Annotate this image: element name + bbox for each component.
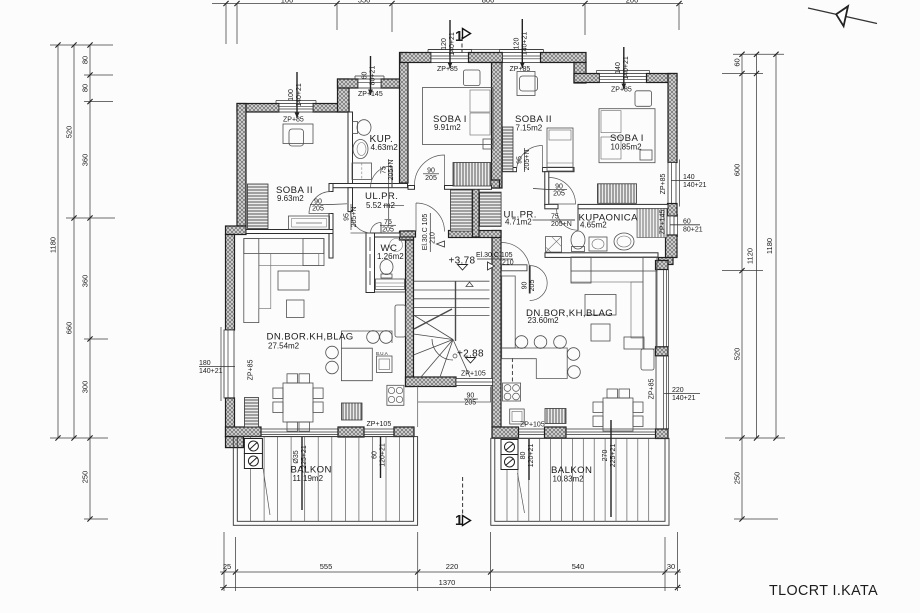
label 95/205+N soba2R door: [516, 148, 531, 172]
svg-text:27.54m2: 27.54m2: [268, 341, 300, 350]
svg-text:El.30.C 105: El.30.C 105: [422, 214, 429, 251]
coffee table right living: [585, 295, 616, 316]
door left WC: [371, 223, 382, 234]
svg-text:90: 90: [467, 393, 475, 400]
wall: right SOBA I bottom / KUPAONICA top: [545, 204, 558, 208]
stairs treads: [414, 281, 490, 377]
balcony left corner block: [226, 437, 244, 448]
svg-text:205: 205: [382, 226, 394, 233]
svg-text:360: 360: [81, 154, 90, 167]
svg-text:550: 550: [358, 0, 371, 5]
svg-text:9.63m2: 9.63m2: [277, 194, 304, 203]
door right SOBA II: [517, 146, 543, 172]
wall: bathroom right lower: [666, 235, 678, 258]
svg-text:140+21: 140+21: [623, 56, 630, 80]
wall: left exterior upper: [237, 104, 246, 227]
callout 140/140+21 soba1R window: [623, 47, 625, 89]
window ZP+145 KUP top: [355, 76, 384, 88]
svg-text:140: 140: [615, 62, 622, 74]
wall: KUP step (left of KUP): [338, 79, 350, 112]
wall: right SOBA I top right pier: [647, 74, 678, 83]
bidet KUPAONICA: [614, 233, 634, 250]
svg-text:205: 205: [312, 206, 324, 213]
wall: right SOBA I top left of window: [574, 74, 600, 83]
window ZP+85 living right upper: [656, 270, 669, 347]
door right KUPAONICA: [557, 209, 579, 231]
callout 60/80+21 right bath window: [670, 224, 700, 226]
stove left kitchen: [387, 385, 404, 405]
desk left SOBA II: [283, 124, 313, 144]
label 75/205+N bath door: [550, 213, 575, 228]
svg-text:4.71m2: 4.71m2: [505, 218, 532, 227]
svg-text:100: 100: [281, 0, 294, 5]
callout 140/140+21 right wall window: [671, 180, 700, 182]
wall: left apt SOBA II top, right of window: [313, 104, 349, 113]
svg-text:140+21: 140+21: [522, 32, 529, 56]
shower KUP: [352, 163, 372, 180]
bed right SOBA II: [547, 128, 573, 171]
svg-text:7.15m2: 7.15m2: [516, 123, 543, 132]
svg-text:ZP+105: ZP+105: [461, 371, 486, 378]
sink KUP: [353, 140, 368, 159]
svg-text:60: 60: [733, 58, 742, 66]
wall: WC top: [375, 233, 401, 237]
door left SOBA I: [415, 155, 445, 185]
svg-text:80: 80: [81, 56, 90, 64]
sill line across main top wall: [428, 49, 544, 51]
wall: main top pier between windows: [469, 53, 503, 63]
callout 120/140+21 soba2R window: [521, 19, 523, 68]
svg-text:250: 250: [733, 472, 742, 485]
svg-text:205: 205: [465, 400, 477, 407]
wall: left SOBA I bottom, segments around door: [408, 186, 415, 190]
label El.30.C 105/210 left entry: [422, 213, 437, 252]
svg-text:205+N: 205+N: [388, 160, 395, 181]
svg-text:B.U.A: B.U.A: [376, 351, 388, 356]
wall: stairwell bottom left of window: [406, 377, 457, 387]
window ZP+85 soba II right top: [500, 50, 544, 63]
svg-text:250: 250: [81, 471, 90, 484]
wall: right apt bottom block A: [492, 427, 519, 438]
svg-text:520: 520: [733, 348, 742, 361]
svg-text:1.26m2: 1.26m2: [377, 252, 404, 261]
wall: WC top-right corner block: [400, 232, 414, 241]
svg-text:220: 220: [446, 562, 459, 571]
svg-text:30: 30: [667, 562, 675, 571]
bar stools left kitchen: [326, 331, 393, 374]
wall: closet divider vertical: [473, 180, 480, 237]
wall: left step corner block: [226, 226, 247, 235]
label 90/205 soba1R door: [533, 183, 567, 197]
leader line 4.71m2: [533, 219, 576, 221]
balcony right decking: [507, 439, 649, 522]
wall: left exterior lower above window: [226, 235, 235, 331]
sink unit right kitchen: [510, 409, 525, 424]
wall: right step down: [574, 63, 586, 84]
balcony left diagonal: [263, 468, 270, 515]
wall: party wall between apartments: [492, 63, 503, 189]
svg-text:Ø35: Ø35: [293, 450, 300, 463]
svg-text:140: 140: [683, 174, 695, 181]
svg-text:80: 80: [81, 84, 90, 92]
wall: main top right pier: [541, 53, 587, 63]
armchair right living: [641, 349, 654, 370]
wall: WC bottom shelf line: [375, 291, 407, 293]
callout 60/80+21 kup window: [370, 56, 372, 95]
wall: right exterior pier below window: [668, 204, 678, 217]
svg-text:225+21: 225+21: [610, 444, 617, 468]
door right SOBA I: [549, 178, 576, 205]
svg-text:540: 540: [572, 562, 585, 571]
balcony door glazing left apt (east ZP+105): [364, 429, 394, 435]
svg-text:23.60m2: 23.60m2: [528, 316, 560, 325]
door left apt entry: [416, 203, 445, 232]
balcony door glazing left apt (west): [261, 429, 338, 435]
svg-text:120: 120: [514, 38, 521, 50]
porch recess outline: [418, 387, 491, 428]
svg-text:ZP+85: ZP+85: [611, 87, 632, 94]
wall: WC left: [366, 233, 375, 293]
svg-text:60: 60: [683, 218, 691, 225]
svg-text:ZP+85: ZP+85: [283, 117, 304, 124]
svg-text:520: 520: [65, 126, 74, 139]
wall: UL.PR right / SOBA I left divider: [545, 172, 549, 206]
svg-text:205: 205: [529, 280, 536, 292]
balcony left outline: [233, 437, 417, 526]
sofa L right living: [571, 257, 657, 349]
nightstand right SOBA I: [635, 91, 652, 107]
window ZP+145 right wall bathroom: [667, 214, 678, 237]
stove right kitchen: [503, 383, 521, 401]
balcony right outline: [491, 438, 669, 525]
steps block right living to balcony (striped): [545, 409, 566, 424]
svg-text:120+21: 120+21: [528, 444, 535, 468]
window ZP+85 right wall soba I: [668, 160, 680, 207]
svg-text:ZP+85: ZP+85: [437, 66, 458, 73]
chair left SOBA II: [289, 129, 304, 146]
wall: living right block 3 (bottom corner): [656, 429, 669, 439]
window ZP+85 left wall: [221, 327, 234, 401]
svg-text:1180: 1180: [765, 238, 774, 254]
svg-text:90: 90: [522, 282, 529, 290]
wall: SOBA II bottom: [246, 230, 333, 234]
stair direction arrow: [466, 282, 473, 287]
wall: left apt bottom block C: [394, 427, 414, 437]
bed left SOBA I: [423, 88, 494, 145]
svg-text:9.91m2: 9.91m2: [434, 123, 461, 132]
stairs arc: [432, 339, 453, 360]
closet left apt hall (striped): [451, 190, 473, 232]
steps block left living to balcony (striped): [342, 403, 363, 420]
dining table left living: [273, 374, 323, 431]
svg-text:600: 600: [733, 164, 742, 177]
callout 100/140+21 soba2L window: [296, 72, 298, 118]
coffee table left living: [278, 271, 309, 290]
wall: left apt bottom block B: [338, 427, 364, 437]
level marker +2.88: [453, 349, 484, 364]
bar stools right kitchen: [515, 336, 580, 379]
svg-text:10.85m2: 10.85m2: [611, 142, 643, 151]
wardrobe right SOBA II (striped): [503, 127, 514, 172]
right entry triangle: [488, 262, 495, 270]
radiator strip left living (striped): [245, 398, 259, 428]
wardrobe left SOBA I (striped): [453, 163, 491, 187]
sink unit left kitchen: [377, 356, 393, 373]
wall: landing top band: [474, 180, 500, 188]
wardrobe right SOBA I (striped): [598, 184, 637, 204]
callout 80/120+21 right balcony: [528, 439, 530, 480]
svg-text:4.65m2: 4.65m2: [580, 221, 607, 230]
door left SOBA II: [309, 192, 331, 214]
wall: KUP bottom / UL.PR top: [329, 184, 408, 188]
svg-text:25: 25: [223, 562, 231, 571]
svg-text:225+21: 225+21: [301, 445, 308, 469]
wall: landing band left of entry door: [400, 231, 416, 237]
svg-text:100: 100: [288, 89, 295, 101]
svg-text:180: 180: [199, 360, 211, 367]
callout 270/225+21 right balcony: [610, 420, 612, 517]
svg-text:140+21: 140+21: [449, 32, 456, 56]
wall: landing band top of stairwell: [449, 231, 502, 238]
svg-text:60: 60: [372, 451, 379, 459]
level change triangle left entry: [437, 241, 445, 247]
dining table right living: [593, 389, 643, 431]
svg-text:ZP+85: ZP+85: [510, 66, 531, 73]
svg-text:360: 360: [81, 275, 90, 288]
svg-text:140+21: 140+21: [683, 182, 707, 189]
window ZP+85 soba II top: [276, 101, 316, 113]
door left UL.PR to living: [351, 212, 372, 233]
section line mid (kitchen): [511, 358, 513, 384]
level marker +3.78: [449, 256, 476, 271]
toilet KUPAONICA: [571, 231, 585, 249]
bathtub heater KUPAONICA striped: [637, 209, 667, 238]
wall: KUP top left of window: [338, 79, 359, 88]
toilet WC: [380, 260, 393, 275]
closet right apt hall (striped): [480, 192, 502, 226]
balcony right diagonal: [518, 473, 525, 513]
svg-text:95: 95: [516, 156, 523, 164]
sofa L left living: [244, 239, 324, 323]
north arrow: [808, 6, 877, 26]
svg-text:1180: 1180: [49, 237, 58, 253]
wardrobe left SOBA II (striped): [248, 184, 269, 229]
bed right SOBA I: [599, 109, 655, 163]
svg-text:ZP+85: ZP+85: [660, 173, 667, 194]
label 90/205 soba1L door: [423, 168, 439, 182]
svg-text:200: 200: [626, 0, 639, 5]
wall: left apt SOBA II top, left of window: [237, 104, 279, 113]
top dimension line: [212, 0, 683, 44]
section line 1 bottom: [455, 477, 471, 529]
wall: SOBA II / KUP divider: [348, 112, 353, 184]
svg-text:300: 300: [81, 381, 90, 394]
svg-text:205+N: 205+N: [551, 221, 572, 228]
wall: main top left of window1: [400, 53, 431, 63]
window ZP+85 right SOBA I top: [597, 71, 650, 83]
svg-text:140+21: 140+21: [199, 368, 223, 375]
wall: stairwell right: [492, 231, 501, 428]
svg-text:555: 555: [320, 562, 333, 571]
callout 60/120+21 left balcony: [380, 437, 382, 478]
svg-text:TLOCRT I.KATA: TLOCRT I.KATA: [769, 583, 878, 599]
svg-text:10.83m2: 10.83m2: [553, 474, 585, 483]
wall: UL.PR / living stub + door: [348, 188, 353, 212]
svg-text:270: 270: [602, 450, 609, 462]
svg-text:95: 95: [343, 213, 350, 221]
svg-text:220: 220: [672, 387, 684, 394]
svg-text:660: 660: [65, 322, 74, 335]
svg-text:4.63m2: 4.63m2: [371, 143, 399, 152]
stairs winders: [414, 309, 452, 329]
door right hall to living + leaf: [529, 266, 531, 294]
right dimension line group: [722, 52, 785, 522]
window ZP+105 stairwell bottom: [456, 379, 493, 386]
balcony door right apt: [519, 429, 545, 435]
svg-text:11.19m2: 11.19m2: [293, 474, 324, 483]
svg-text:140+21: 140+21: [296, 83, 303, 107]
nightstand left SOBA I: [464, 70, 481, 86]
left dimension line group: [49, 42, 116, 521]
section line 1 top: [455, 29, 471, 63]
wall: left exterior below window: [226, 398, 235, 437]
kitchen island left living: [341, 331, 392, 381]
label 75/205 WC door: [380, 219, 396, 233]
balcony left decking: [251, 437, 400, 521]
kitchen counter right apt: [502, 348, 568, 379]
fridge left kitchen: [395, 305, 406, 337]
bottom dimension lines: [220, 532, 681, 591]
window ZP+85 living right lower: [656, 356, 669, 429]
label 95/205+N left hall door: [343, 204, 358, 230]
wall: living right block 1: [656, 261, 669, 270]
svg-text:ZP+85: ZP+85: [649, 378, 656, 399]
svg-text:80+21: 80+21: [683, 226, 703, 233]
wall: right apt bottom block B: [545, 427, 567, 438]
label 90/205 soba2L door: [310, 199, 347, 213]
washing machine KUPAONICA: [546, 237, 562, 253]
callout 180/140+21 left wall window: [199, 366, 235, 368]
svg-text:800: 800: [482, 0, 495, 5]
WC shelf: [376, 279, 405, 290]
wall: bathroom step diagonal hatch: [659, 258, 674, 265]
svg-text:205+N: 205+N: [351, 207, 358, 228]
balcony window right apt ZP+105: [566, 429, 656, 435]
wall: SOBA I left / KUP right: [400, 53, 409, 184]
balcony right drain squares: [501, 440, 518, 470]
kitchen counter strip right apt: [502, 276, 516, 348]
svg-text:205: 205: [425, 175, 437, 182]
callout 220/140+21 right living window: [664, 393, 700, 395]
svg-text:210: 210: [502, 260, 514, 267]
toilet KUP: [353, 122, 358, 134]
svg-text:75: 75: [551, 213, 559, 220]
svg-text:1120: 1120: [746, 248, 755, 264]
svg-text:El.30.C 105: El.30.C 105: [476, 252, 513, 259]
label 75/205+N KUP door: [381, 159, 396, 226]
label 90/205 porch: [464, 393, 478, 407]
callout 35/225+21 left balcony: [301, 437, 303, 510]
door left KUP: [371, 166, 393, 188]
svg-text:120: 120: [441, 38, 448, 50]
balcony left drain squares: [244, 439, 262, 469]
svg-text:205: 205: [553, 191, 565, 198]
svg-text:75: 75: [381, 166, 388, 174]
svg-text:80+21: 80+21: [370, 66, 377, 86]
label El.30.C 105/210 right entry: [476, 252, 514, 267]
wall: KUP top right of window: [381, 79, 407, 88]
svg-text:1370: 1370: [439, 578, 456, 587]
wall: left apt bottom block A: [226, 427, 262, 437]
wall: SOBA II right (with door opening): [329, 184, 333, 192]
dresser left SOBA II: [289, 216, 330, 229]
svg-text:60: 60: [362, 72, 369, 80]
wall: right SOBA II bottom segments: [502, 168, 517, 172]
sink KUPAONICA: [589, 237, 607, 251]
desk right SOBA II: [517, 72, 535, 96]
svg-text:ZP+105: ZP+105: [367, 421, 392, 428]
wall: right exterior upper: [668, 74, 677, 163]
door right apt entry: [502, 243, 530, 271]
wall: KUPAONICA bottom: [545, 253, 658, 258]
svg-text:ZP+85: ZP+85: [248, 359, 255, 380]
wall: stairwell left: [406, 231, 414, 387]
wall: living right block 2: [656, 347, 669, 356]
svg-text:140+21: 140+21: [672, 395, 696, 402]
window ZP+85 soba I top: [428, 50, 472, 63]
svg-text:ZP+145: ZP+145: [660, 210, 667, 235]
svg-text:120+21: 120+21: [380, 443, 387, 467]
callout 120/140+21 soba1L window: [449, 20, 451, 68]
svg-text:80: 80: [520, 452, 527, 460]
svg-text:ZP+105: ZP+105: [520, 422, 545, 429]
